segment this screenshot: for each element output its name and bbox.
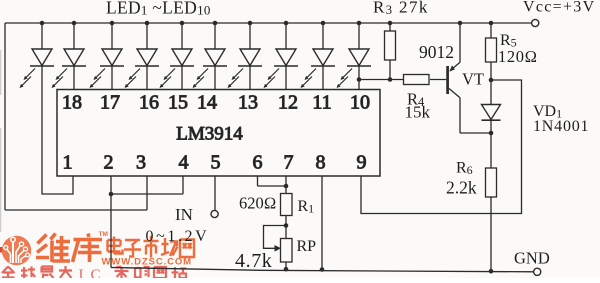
wire LED5 cathode to pin15 [181,66,183,90]
svg-text:17: 17 [100,92,120,114]
watermark logo disc [2,236,31,265]
svg-text:GND: GND [514,249,550,268]
svg-text:620Ω: 620Ω [239,194,276,213]
node R1-RP junction [284,223,289,228]
wire pin3 stub [146,176,148,210]
node R5 bottom junction [489,78,494,83]
LED LED7 [228,21,263,88]
wire LED1 cathode to pin1 [42,66,73,194]
svg-text:2.2k: 2.2k [446,178,477,198]
wire LED8 cathode to pin12 [285,66,287,90]
svg-text:Vcc=+3V: Vcc=+3V [523,0,595,16]
svg-text:IN: IN [175,205,193,224]
svg-text:R6: R6 [456,160,473,178]
svg-text:2: 2 [104,152,114,174]
wire pin2 to pin4 [111,176,183,194]
wire LED10 cathode to pin10 [358,66,360,90]
wire pin2 to ground rail [110,176,112,268]
watermark bottom row [2,266,72,278]
scan edge artifacts [0,50,2,232]
svg-text:VT: VT [462,70,484,89]
LED LED6 [193,21,228,88]
watermark text dianzishichangwang [108,236,195,258]
watermark red tick left edge [0,247,2,253]
svg-text:12: 12 [278,92,298,114]
svg-text:9012: 9012 [419,42,454,62]
resistor R3 [385,23,396,80]
wire ground rail [111,268,534,272]
svg-text:C: C [91,267,101,278]
svg-text:RP: RP [297,238,317,255]
wire Vcc top rail [5,22,532,24]
op-amp U1 LM3914 IC body [57,90,380,177]
svg-text:R3 27k: R3 27k [373,0,429,17]
svg-text:10: 10 [350,92,370,114]
svg-text:15: 15 [168,92,188,114]
wire RP wiper [264,226,287,249]
svg-text:15k: 15k [405,103,431,122]
LED LED4 [125,21,160,88]
terminal GND [534,268,541,275]
node pin8 ground junction [320,267,325,272]
svg-text:18: 18 [62,92,82,114]
wire pin7 to R1 [285,176,287,194]
svg-text:13: 13 [238,92,258,114]
node R3 bottom junction [388,77,393,82]
transistor VT 9012 [448,21,491,133]
LED LED2 [52,21,87,88]
terminal Vcc [532,19,539,26]
svg-text:120Ω: 120Ω [498,47,538,66]
wire RP to ground [285,262,287,269]
LED LED3 [90,21,125,88]
resistor R5 [486,23,497,80]
svg-text:3: 3 [136,152,146,174]
svg-text:7: 7 [284,152,294,174]
svg-text:9: 9 [357,152,367,174]
wire R1 to RP [285,216,287,239]
svg-text:4.7k: 4.7k [235,250,272,272]
resistor R6 [486,133,497,271]
svg-text:LED1 ~LED10: LED1 ~LED10 [106,0,211,18]
wire LED4 cathode to pin16 [146,66,148,90]
svg-text:6: 6 [253,152,263,174]
svg-text:1N4001: 1N4001 [533,118,589,135]
watermark text weiku [36,234,102,263]
svg-text:5: 5 [211,152,221,174]
node R6 ground junction [489,269,494,274]
node R5 rail junction [489,21,494,26]
wire R4 to base [430,79,446,81]
wire pin8 to ground [321,176,323,270]
wire LED2 cathode to pin18 [73,66,75,90]
wire left frame V+ down [4,23,6,210]
svg-text:14: 14 [197,92,217,114]
svg-text:I: I [79,267,84,278]
node pin7 junction [284,184,289,189]
wire LED9 cathode to pin11 [322,66,324,90]
svg-text:4: 4 [179,152,189,174]
resistor R1 [281,194,293,216]
node R3 rail junction [388,21,393,26]
wire V+ horizontal to pin3 [5,209,147,211]
LED LED1 [20,21,55,88]
svg-text:TM: TM [99,231,108,238]
svg-text:R1: R1 [298,198,315,216]
svg-text:11: 11 [312,92,331,114]
wire LED6 cathode to pin14 [214,66,216,90]
wire LED10 node to R4 [359,79,404,81]
pin numbers bottom row 1-9 [63,152,367,174]
svg-text:1: 1 [63,152,73,174]
node LED10 junction [357,77,362,82]
svg-text:WWW.DZSC.COM: WWW.DZSC.COM [102,257,192,268]
LED LED9 [301,21,336,88]
potentiometer RP [281,239,293,263]
resistor R4 [404,75,430,85]
wire pin6 to pin7 [258,176,287,186]
wire LED3 cathode to pin17 [111,66,113,90]
LED LED10 [337,21,372,88]
node collector VD1 R6 junction [489,131,494,136]
diode VD1 [482,80,501,133]
svg-text:LM3914: LM3914 [176,124,243,145]
node pin2 junction [109,192,114,197]
wire pin5 to IN [214,176,216,210]
svg-text:8: 8 [316,152,326,174]
pin numbers top row 18-10 [62,92,370,114]
svg-text:0~1.2V: 0~1.2V [146,228,210,245]
wire LED7 cathode to pin13 [249,66,251,90]
svg-text:16: 16 [139,92,159,114]
LED LED8 [264,21,299,88]
node RP ground junction [284,267,289,272]
terminal IN [211,210,218,217]
LED LED5 [160,21,195,88]
wire pin9 to R5/VD1 node [361,80,522,214]
